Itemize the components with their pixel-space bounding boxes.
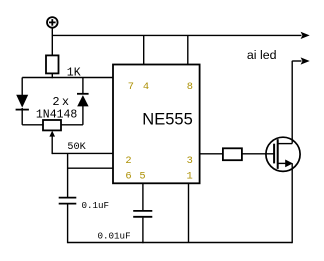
svg-text:8: 8 — [187, 81, 193, 93]
svg-text:4: 4 — [143, 81, 149, 93]
svg-text:1N4148: 1N4148 — [36, 108, 78, 121]
svg-text:2: 2 — [52, 95, 59, 109]
svg-text:3: 3 — [187, 155, 193, 167]
svg-text:0.01uF: 0.01uF — [98, 230, 131, 241]
svg-text:0.1uF: 0.1uF — [82, 200, 110, 211]
svg-text:x: x — [62, 95, 69, 109]
svg-text:ai led: ai led — [247, 48, 277, 62]
svg-text:1: 1 — [187, 170, 193, 182]
svg-text:1K: 1K — [67, 66, 81, 79]
svg-text:2: 2 — [125, 155, 131, 167]
svg-text:6: 6 — [125, 170, 131, 182]
svg-text:7: 7 — [128, 81, 134, 93]
svg-text:NE555: NE555 — [142, 110, 192, 128]
svg-text:5: 5 — [139, 170, 145, 182]
svg-text:50K: 50K — [67, 142, 86, 153]
